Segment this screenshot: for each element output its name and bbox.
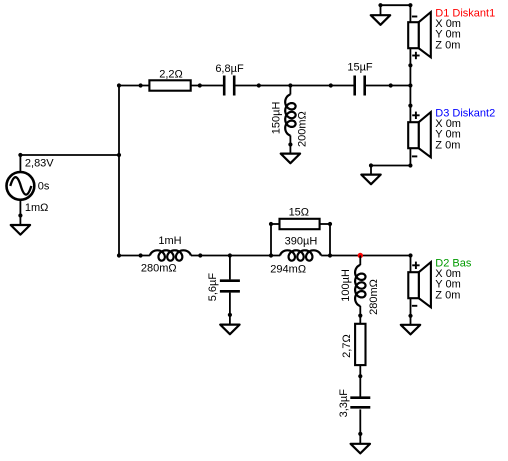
ground below C3 xyxy=(220,315,239,334)
node A: woofer node (red) xyxy=(358,253,363,258)
wire: D2 bottom lead xyxy=(410,298,412,316)
svg-text:Z 0m: Z 0m xyxy=(435,139,460,151)
label D2 plus xyxy=(412,262,419,269)
node: L1/C2 junction xyxy=(329,83,333,87)
label C3 value 5,6&#181;F xyxy=(207,273,219,302)
label D1 plus xyxy=(412,52,419,59)
svg-text:6,8µF: 6,8µF xyxy=(215,63,244,75)
node: L3 right junction xyxy=(328,253,332,257)
label L2 value 1mH xyxy=(158,235,181,247)
node: junction source/main vertical xyxy=(117,153,121,157)
wire: R2 right lead xyxy=(320,223,330,225)
node: D1 lower dot xyxy=(408,63,412,67)
node: D3 upper dot xyxy=(408,104,412,108)
svg-text:150µH: 150µH xyxy=(271,102,283,135)
label D2 Y position xyxy=(435,279,460,291)
label D3 X position xyxy=(435,118,461,130)
label V1 delay 0s xyxy=(38,180,50,192)
node: R1/C1 junction xyxy=(198,83,202,87)
capacitor C4 3,3µF xyxy=(350,398,370,408)
ground below L1 xyxy=(281,145,300,164)
label C4 value 3,3&#181;F xyxy=(338,389,350,418)
ground below C4 xyxy=(351,434,370,454)
wire: L1 bottom lead xyxy=(289,135,291,144)
node: R2 right terminal xyxy=(328,222,332,226)
label L1 value 150&#181;H xyxy=(271,102,283,135)
label C1 value 6,8&#181;F xyxy=(215,63,244,75)
svg-text:100µH: 100µH xyxy=(340,269,352,302)
label L4 resistance 280m&#937; xyxy=(368,279,380,315)
label D1 Y position xyxy=(435,29,460,41)
node: C4 bottom xyxy=(358,432,362,436)
label driver D3 Diskant2 xyxy=(435,107,495,119)
label D2 Z position xyxy=(435,289,460,301)
label L3 resistance 294m&#937; xyxy=(270,264,306,276)
wire: L4 bottom lead xyxy=(359,306,361,316)
wire: R3 bottom lead xyxy=(359,365,361,376)
wire: source top lead xyxy=(19,155,21,172)
svg-text:2,7Ω: 2,7Ω xyxy=(341,334,353,358)
capacitor C1 6,8µF xyxy=(224,76,234,96)
label driver D2 Bas xyxy=(435,257,472,269)
wire: C3 top lead xyxy=(229,256,231,280)
node: L4/R3 junction xyxy=(358,314,362,318)
speaker D3 Diskant2 xyxy=(408,112,431,157)
capacitor C3 5,6µF (shunt) xyxy=(220,281,240,292)
wire: R2 left lead xyxy=(271,223,280,225)
node: D3 ground corner xyxy=(369,163,373,167)
node: C2 right junction xyxy=(389,83,393,87)
capacitor C2 15µF xyxy=(355,76,365,96)
label V1 value 2,83V xyxy=(25,158,54,170)
wire: top branch left segment xyxy=(119,85,223,87)
node: C1/L1 junction xyxy=(257,83,261,87)
node: tweeter branch junction xyxy=(408,83,412,87)
node: R2 left terminal xyxy=(269,222,273,226)
node: D1 top corner xyxy=(408,3,412,7)
svg-text:1mΩ: 1mΩ xyxy=(25,202,49,214)
node: R1 left terminal xyxy=(139,83,143,87)
resistor R3 2,7Ω (vertical) xyxy=(355,324,365,365)
label C2 value 15&#181;F xyxy=(347,61,373,73)
label R2 value 15&#937; xyxy=(289,206,309,218)
label R3 value 2,7&#937; xyxy=(341,334,353,358)
label L2 resistance 280m&#937; xyxy=(141,263,177,275)
node: L2 right terminal xyxy=(198,253,202,257)
node: D2 tap junction xyxy=(408,253,412,257)
ground below D2 xyxy=(401,316,420,335)
svg-text:15µF: 15µF xyxy=(347,61,373,73)
label D1 minus xyxy=(412,16,417,18)
wire: D1 top horizontal xyxy=(381,4,411,6)
node: bottom branch corner xyxy=(117,253,121,257)
label L1 resistance 200m&#937; xyxy=(296,111,308,147)
label D1 X position xyxy=(435,18,461,30)
label D3 Y position xyxy=(435,129,460,141)
wire: R2 left stub xyxy=(270,224,272,256)
svg-text:0s: 0s xyxy=(38,180,50,192)
wire: D2 top lead xyxy=(410,256,412,273)
wire: R3 top lead xyxy=(359,316,361,324)
svg-text:5,6µF: 5,6µF xyxy=(207,273,219,302)
node: D1 ground corner xyxy=(378,3,382,7)
svg-text:390µH: 390µH xyxy=(285,236,318,248)
resistor R2 15Ω xyxy=(280,219,320,229)
wire: top branch right segment (C2 to tweeter node) xyxy=(366,85,411,87)
label D1 Z position xyxy=(435,39,460,51)
wire: source to main vertical xyxy=(20,154,119,156)
voltage source V1 xyxy=(7,172,35,200)
node: source bottom junction xyxy=(18,213,22,217)
wire: C3 bottom lead xyxy=(229,293,231,315)
wire: C4 top lead xyxy=(359,376,361,396)
wire: main vertical from top branch to bottom branch xyxy=(118,86,120,256)
wire: bottom branch left segment xyxy=(119,255,150,257)
svg-text:Z 0m: Z 0m xyxy=(435,289,460,301)
label D3 minus xyxy=(412,155,417,157)
inductor L3 390µH xyxy=(280,250,321,260)
node: top branch corner xyxy=(117,83,121,87)
node: R3/C4 junction xyxy=(358,374,362,378)
svg-text:2,2Ω: 2,2Ω xyxy=(159,69,183,81)
label R1 value 2,2&#937; xyxy=(159,69,183,81)
ground for D3 xyxy=(361,166,380,185)
wire: D1 top lead xyxy=(409,5,411,22)
node: D2 bottom xyxy=(408,314,412,318)
wire: source bottom lead xyxy=(19,200,21,216)
inductor L2 1mH xyxy=(150,250,191,260)
label V1 impedance 1m&#937; xyxy=(25,202,49,214)
node: source top junction xyxy=(18,153,22,157)
node: parallel section left junction xyxy=(269,253,273,257)
wire: D1 bottom lead to node xyxy=(409,48,411,85)
svg-text:3,3µF: 3,3µF xyxy=(338,389,350,418)
svg-text:Z 0m: Z 0m xyxy=(435,39,460,51)
wire: tweeter node down to D3 xyxy=(409,86,411,123)
svg-text:280mΩ: 280mΩ xyxy=(141,263,177,275)
label L4 value 100&#181;H xyxy=(340,269,352,302)
wire: D3 bottom lead xyxy=(409,148,411,165)
wire: top branch middle segment (between C1 and C2) xyxy=(235,85,353,87)
node: L2 left terminal xyxy=(139,253,143,257)
node: L1 tap on top branch xyxy=(288,83,292,87)
svg-text:15Ω: 15Ω xyxy=(289,206,309,218)
svg-text:294mΩ: 294mΩ xyxy=(270,264,306,276)
wire: bottom branch right segment xyxy=(321,255,410,257)
svg-text:1mH: 1mH xyxy=(158,235,181,247)
label D2 X position xyxy=(435,268,461,280)
wire: D3 bottom horizontal xyxy=(371,165,410,167)
node: C3 bottom xyxy=(228,313,232,317)
ground for D1 xyxy=(371,5,390,25)
node: C3 tap junction xyxy=(228,253,232,257)
node: D3 bottom corner xyxy=(408,163,412,167)
wire: L4 top lead xyxy=(359,256,361,266)
svg-text:280mΩ: 280mΩ xyxy=(368,279,380,315)
label D3 Z position xyxy=(435,139,460,151)
label D3 plus xyxy=(412,112,419,119)
speaker D2 Bas xyxy=(408,262,431,307)
label D2 minus xyxy=(412,305,417,307)
speaker D1 Diskant1 xyxy=(408,12,431,57)
ground below source xyxy=(11,216,30,235)
wire: R2 right stub xyxy=(329,224,331,256)
node: L1 bottom xyxy=(288,142,292,146)
label driver D1 Diskant1 xyxy=(435,7,495,19)
label L3 value 390&#181;H xyxy=(285,236,318,248)
wire: L1 top lead xyxy=(289,86,291,95)
svg-text:200mΩ: 200mΩ xyxy=(296,111,308,147)
svg-text:2,83V: 2,83V xyxy=(25,158,54,170)
wire: C4 bottom lead xyxy=(359,409,361,434)
wire: bottom branch middle segment xyxy=(191,255,280,257)
resistor R1 2,2Ω xyxy=(149,80,190,90)
inductor L1 150µH (shunt) xyxy=(285,95,295,136)
inductor L4 100µH (shunt) xyxy=(355,265,365,306)
